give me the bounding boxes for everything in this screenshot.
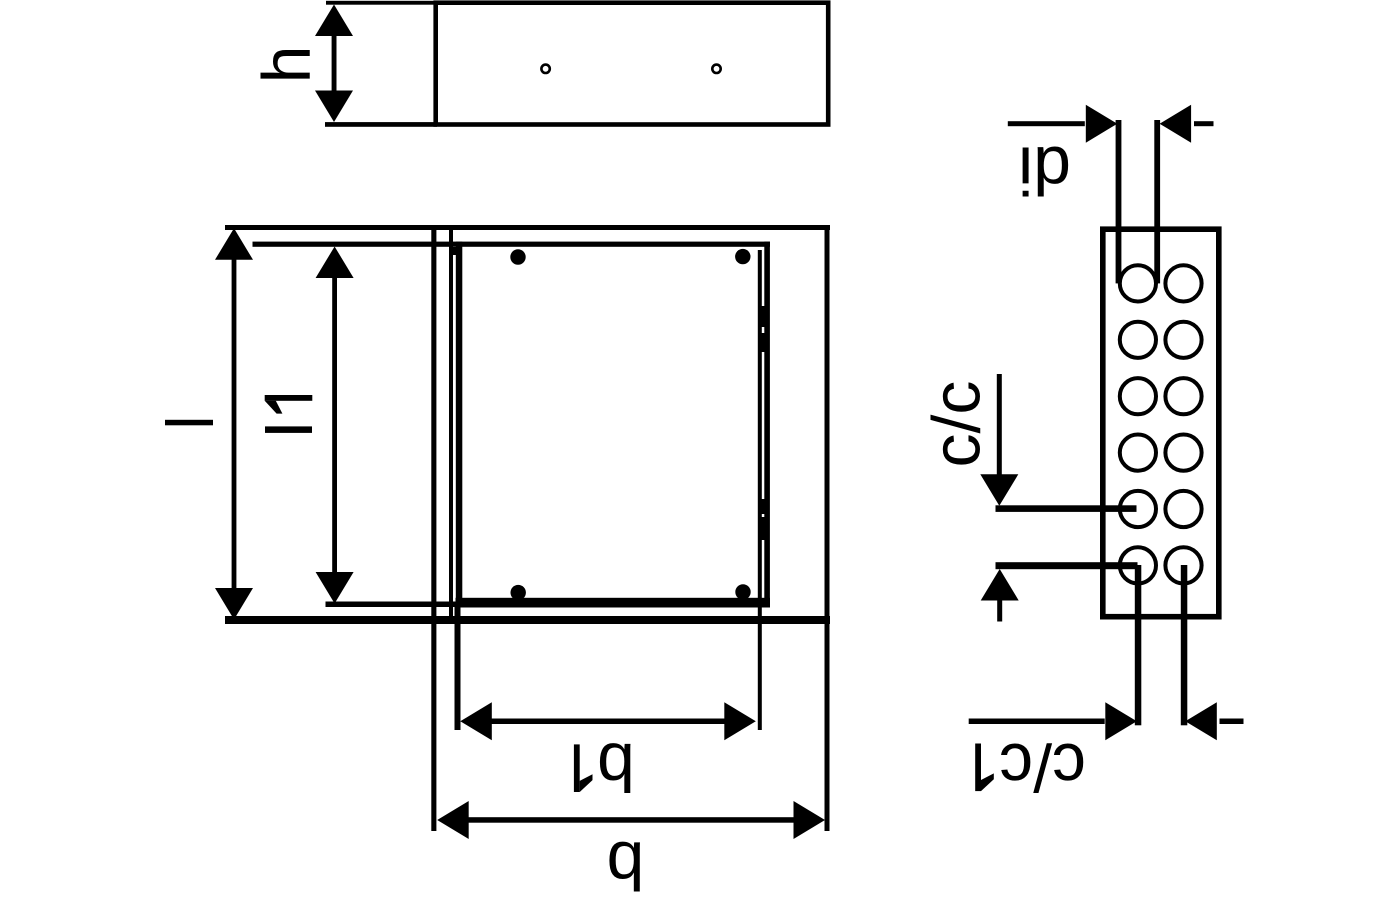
svg-text:b: b [607,828,645,900]
c/c leader line upper (to hole row5 centre) [996,505,1137,512]
lid screw dot bottom-left [511,585,526,600]
l1 bottom extension line [326,602,457,608]
side strip outline (right view) [1103,229,1219,617]
label l1 (rotated) [265,426,312,433]
top view outline (side elevation rectangle) [436,3,829,125]
dimension di arrows [1008,105,1214,143]
hole row5 left [1120,491,1156,527]
dimension c/c1 arrows [969,702,1244,740]
hole row2 left [1120,322,1156,358]
hole row6 left [1120,547,1156,583]
svg-text:h: h [249,46,325,84]
hole row1 left [1120,265,1156,301]
hole row2 right [1165,322,1201,358]
plan view outer right edge / b extension [825,225,830,831]
plan view outer left edge / b extension [431,225,436,831]
lid top edge with l1 extension [253,242,771,247]
hole row4 right [1165,435,1201,471]
dimension h top extension line [326,1,437,5]
hole circles: 2 columns x 6 rows [1120,265,1202,583]
dimension h arrow [315,5,353,123]
corner step detail [451,247,456,255]
lid screw dot top-left [510,249,525,264]
di extension line right [1154,120,1160,283]
dimension b1 line with arrows [460,702,756,740]
label l (rotated) [165,420,213,426]
c/c up arrow [981,569,1019,622]
c/c1 extension line right (from hole row6 right centre) [1181,565,1188,725]
hole row5 right [1165,491,1201,527]
plan view inner opening right line / b1 extension [758,250,762,730]
lid screw dot bottom-right [735,584,750,599]
c/c leader line lower (to hole row6 centre) [996,562,1138,569]
hole row1 right [1165,265,1201,301]
lid screw dot top-right [735,249,750,264]
top view hole mark right [712,65,720,73]
hinge mark upper on lid right edge [761,306,767,327]
lid bottom edge [456,598,771,608]
svg-text:di: di [1018,133,1071,209]
di extension line left [1116,120,1122,283]
b1 left extension line [455,606,461,730]
svg-text:b: b [597,729,635,805]
plan view outer top edge with l extension [225,225,830,230]
lid right edge [764,242,770,607]
dimension l arrow [215,228,253,619]
hole row4 left [1120,435,1156,471]
plan view outer bottom edge with l extension [225,616,830,624]
svg-text:c/c: c/c [918,381,994,468]
hinge mark lower on lid right edge [761,499,767,514]
top view hole mark left [541,65,549,73]
dimension l1 arrow [316,247,354,604]
dimension b line with arrows [437,801,825,839]
hole row6 right [1165,547,1201,583]
plan view inner opening left line / b1 extension [449,229,453,624]
lid left edge [456,242,463,607]
c/c1 extension line left (from hole row6 left centre) [1135,565,1142,725]
hole row3 right [1165,378,1201,414]
hole row3 left [1120,378,1156,414]
dimension h bottom extension line [325,122,437,127]
svg-text:c/c: c/c [999,729,1086,805]
c/c down arrow [980,374,1018,506]
